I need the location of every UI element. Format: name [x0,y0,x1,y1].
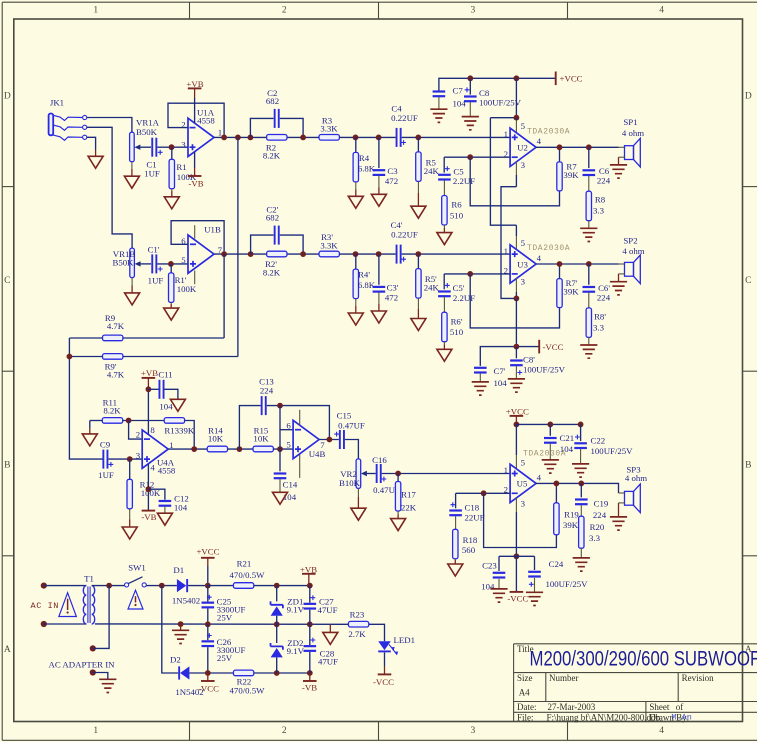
ground under R5p [411,298,426,330]
node C8p rail [514,344,520,350]
svg-text:A4: A4 [519,688,530,698]
node C13/feedback [277,403,283,409]
feedback wire U1A output to pin2 [168,103,224,137]
svg-text:B50K: B50K [136,127,158,137]
node R17 branch [395,471,401,477]
svg-text:4: 4 [150,463,155,473]
capacitor C19 224 [575,483,609,520]
svg-text:24K: 24K [424,166,440,176]
feedback wire R7p to U3 pin2 [470,274,559,328]
wire to C23 C24 [499,555,535,557]
ground under R4 [348,182,363,208]
svg-text:3: 3 [521,160,526,170]
ground under C7p [472,373,489,395]
ground under C23 [490,579,507,602]
node R5 branch [415,135,421,141]
capacitor C27 47UF [304,586,338,616]
svg-text:C: C [745,276,751,286]
svg-text:100UF/25V: 100UF/25V [545,579,588,589]
diode D1 1N5402 [172,565,208,606]
svg-text:4: 4 [537,472,542,482]
svg-text:472: 472 [385,176,398,186]
node U1A out [221,135,227,141]
svg-text:AC IN: AC IN [31,601,60,611]
switch SW1 [125,562,147,587]
wire +VCC rail to C21 C22 [516,423,580,425]
resistor R2 8.2K [263,135,287,161]
svg-text:R18: R18 [463,535,478,545]
svg-text:22K: 22K [401,503,417,513]
svg-text:-VB: -VB [302,683,317,693]
node R2p/R3p [300,251,306,257]
resistor R23 2.7K [348,609,368,639]
warning mark in T1 [59,593,77,617]
svg-text:C: C [4,276,10,286]
svg-text:C3': C3' [387,283,399,293]
svg-text:39K: 39K [563,170,579,180]
svg-text:510: 510 [450,327,464,337]
svg-text:C16: C16 [372,455,387,465]
potentiometer VR1B B50K [112,248,151,278]
wire U1B output [214,253,319,255]
svg-text:D: D [745,92,752,102]
wire jack contact2 down to channel 2 [87,127,132,248]
svg-text:TDA2030A: TDA2030A [523,450,566,459]
node D1/D2 feed [159,583,165,589]
resistor R4 6.8K [353,137,376,182]
node C2p branch [248,251,254,257]
LED1 [378,635,415,655]
svg-text:104: 104 [159,401,173,411]
resistor R21 470/0.5W [230,559,266,589]
node U4B out [327,437,333,443]
capacitor C13 224 with loop [239,377,329,450]
svg-text:B10K: B10K [339,478,361,488]
svg-text:-VB: -VB [141,512,156,522]
svg-text:4558: 4558 [197,116,215,126]
diode D2 1N5402 [162,586,208,698]
svg-text:2.2UF: 2.2UF [453,176,475,186]
svg-text:1: 1 [504,246,508,256]
svg-text:R1339K: R1339K [164,426,194,436]
svg-text:3: 3 [471,6,476,16]
svg-text:R1: R1 [176,162,186,172]
svg-text:3.3: 3.3 [593,206,605,216]
svg-text:C5': C5' [453,283,465,293]
svg-text:104: 104 [494,378,508,388]
capacitor C9 1UF [98,439,142,480]
wire R14 to R15 [228,448,253,450]
node C6p [586,261,592,267]
svg-text:C3: C3 [387,166,398,176]
capacitor C4 0.22UF [391,103,418,146]
svg-text:R8': R8' [594,311,606,321]
svg-text:VR1A: VR1A [136,117,160,127]
resistor R9p 4.7K [69,354,238,380]
svg-text:Size: Size [517,673,533,683]
svg-text:+VB: +VB [141,368,158,378]
svg-text:B: B [4,461,10,471]
node C25 top [205,583,211,589]
ground under JK1 [88,150,103,168]
ground under R4p [348,299,363,325]
svg-text:470/0.5W: 470/0.5W [230,570,266,580]
svg-text:560: 560 [462,545,476,555]
resistor R5p 24K [416,254,440,298]
svg-text:+VB: +VB [300,564,317,574]
amplifier U3 TDA2030A [504,238,571,287]
svg-text:Date:: Date: [517,702,537,712]
svg-text:3: 3 [471,726,476,736]
wire R3 to C4 [339,136,395,138]
node C2 branch [248,135,254,141]
capacitor C3p 472 [373,254,399,303]
node C12 branch [146,486,152,492]
wire C1 to U1A pin3 [172,146,189,148]
svg-text:C8': C8' [523,354,535,364]
svg-text:24K: 24K [424,283,440,293]
svg-text:+VCC: +VCC [560,74,583,84]
resistor R19 39K [554,483,580,534]
svg-text:8.2K: 8.2K [263,267,281,277]
bottom rail wire [208,672,310,674]
svg-text:8.2K: 8.2K [103,406,121,416]
svg-text:4 ohm: 4 ohm [622,128,644,138]
node mix [67,354,73,360]
node C22 [578,422,584,428]
capacitor C2 682 with loop wire [250,88,303,138]
node U1B out [221,251,227,257]
ground under R6p [437,342,452,362]
node C28 bottom [307,670,313,676]
svg-text:Revision: Revision [682,673,715,683]
wire C15 to VR2 [345,440,359,459]
svg-text:C1': C1' [148,245,160,255]
+VCC power above U5 [506,406,529,424]
svg-text:100UF/25V: 100UF/25V [591,446,634,456]
svg-text:27-Mar-2003: 27-Mar-2003 [548,702,596,712]
ground under VR1B [125,278,140,305]
speaker SP2 4 ohm [610,235,645,295]
wire SW1 to D1 [146,585,177,587]
wire U2 pin2 [444,156,510,158]
svg-text:+VCC: +VCC [506,406,529,416]
svg-text:R4': R4' [358,270,370,280]
zener ZD2 9.1V [271,624,305,673]
node C9/R12 [127,456,133,462]
resistor R6p 510 [442,297,464,342]
node pin2/C5p [467,271,473,277]
svg-text:C19: C19 [594,499,609,509]
svg-text:C24: C24 [549,559,564,569]
svg-text:6.8K: 6.8K [358,163,376,173]
zener ZD1 9.1V [271,586,305,625]
speaker SP3 4 ohm [610,464,647,530]
svg-text:+VCC: +VCC [196,546,219,556]
svg-text:C4': C4' [391,220,403,230]
power -VCC under C26 [198,673,219,693]
node C19 [578,481,584,487]
capacitor C12 104 [148,489,188,512]
svg-text:C9: C9 [100,439,111,449]
svg-text:3.3K: 3.3K [320,124,338,134]
wire pin6 link [279,406,281,450]
node C8 on rail [467,75,473,81]
wire C26 to bottom rail [207,647,209,673]
wire C25 to mid rail [207,609,209,625]
-VCC power under U5 [507,556,528,603]
power -VB under C28 [302,673,317,693]
capacitor C2p 682 with loop wire [251,205,304,255]
potentiometer VR2 B10K [339,459,376,489]
svg-text:47UF: 47UF [318,657,338,667]
U4B power stubs [299,410,301,478]
svg-text:A: A [4,645,11,655]
svg-text:D1: D1 [173,565,184,575]
svg-text:1UF: 1UF [144,168,160,178]
resistor R2p 8.2K [263,251,287,277]
ground at R11 left [82,421,97,446]
capacitor C8p 100UF/25V [510,347,566,375]
mid rail wire [95,623,348,625]
capacitor C7p 104 [474,366,507,388]
capacitor C5p 2.2UF [438,274,475,303]
-VCC power rail [480,340,563,366]
svg-text:R6: R6 [451,200,462,210]
op-amp U1A 4558 [181,108,222,157]
node R4 branch [353,135,359,141]
wire U5 pin3 down [515,498,517,512]
svg-text:1: 1 [93,726,98,736]
ground under R1p [164,302,179,320]
wire C4p to U3 pin1 [402,253,510,255]
node pin2/C5 [467,154,473,160]
capacitor C7 104 [433,85,467,108]
svg-text:U4B: U4B [309,449,326,459]
svg-text:47UF: 47UF [317,605,337,615]
svg-text:100K: 100K [177,284,197,294]
capacitor C21 104 [544,424,574,454]
svg-text:1: 1 [218,127,222,137]
title block [514,644,757,723]
wire U4B output to C15 [319,439,339,441]
svg-text:4.7K: 4.7K [107,370,125,380]
resistor R8 3.3 [586,176,606,221]
svg-text:-VCC: -VCC [373,677,394,687]
svg-text:3: 3 [521,498,526,508]
capacitor C28 47UF [304,624,339,666]
ground under VR2 [351,488,366,520]
svg-text:0.47UF: 0.47UF [338,420,365,430]
svg-text:5: 5 [286,440,291,450]
wire rail to U2 pin5 [490,78,516,117]
transformer T1 [83,573,94,624]
node pin3 split [514,553,520,559]
svg-text:C14: C14 [283,479,298,489]
svg-text:2: 2 [282,6,287,16]
svg-text:U1B: U1B [204,225,221,235]
capacitor C1 1UF [144,138,171,179]
node C3p branch [376,251,382,257]
svg-text:104: 104 [174,502,188,512]
svg-text:3: 3 [181,139,186,149]
wire C16 to U5 pin1 [382,473,510,475]
svg-text:4 ohm: 4 ohm [625,473,647,483]
node R4p branch [353,251,359,257]
svg-text:F:\huang bf\AN\M200-800.ddb: F:\huang bf\AN\M200-800.ddb [547,713,661,723]
op-amp U1B [181,225,222,274]
svg-text:4 ohm: 4 ohm [622,246,644,256]
svg-text:104: 104 [453,98,467,108]
svg-text:472: 472 [385,293,398,303]
wire U2 output to SP1 [536,146,619,148]
svg-text:3.3: 3.3 [593,322,605,332]
svg-text:10K: 10K [253,434,269,444]
capacitor C25 3300UF 25V [202,586,246,623]
svg-text:-VCC: -VCC [543,342,564,352]
capacitor C22 100UF/25V [574,424,633,456]
power +VB above U4A [141,368,158,434]
capacitor C8 100UF/25V [464,78,522,107]
svg-text:2.7K: 2.7K [348,629,366,639]
svg-text:682: 682 [266,213,279,223]
wire adapter to switch node [93,586,109,649]
resistor R17 22K [395,474,416,513]
svg-text:4: 4 [659,6,664,16]
node C1p/R1p [168,261,174,267]
node R2/R3 [300,135,306,141]
wire U2 pin3 to -VCC rail [515,162,517,176]
ground under R18 [448,559,463,576]
svg-text:C15: C15 [337,410,352,420]
svg-text:4.7K: 4.7K [107,321,125,331]
node T1 ground [178,621,184,627]
ground under R17 [391,511,406,531]
node U4A out [191,446,197,452]
svg-text:R23: R23 [350,609,365,619]
svg-text:4: 4 [659,726,664,736]
svg-text:1: 1 [504,465,508,475]
node SW1/adapter [106,583,112,589]
svg-text:104: 104 [481,581,495,591]
ground after C11 [170,399,185,411]
svg-text:C11: C11 [158,369,172,379]
ground under C8 [462,102,479,130]
svg-text:3: 3 [136,451,141,461]
svg-text:D2: D2 [170,655,181,665]
ground under C24 [526,578,543,606]
U1B power stubs [194,225,196,284]
capacitor C6p 224 [583,264,611,302]
capacitor C14 104 [274,449,298,502]
svg-text:JK1: JK1 [50,97,64,107]
ground under C7 [430,97,447,122]
node +VCC [514,422,520,428]
svg-text:3: 3 [521,277,526,287]
capacitor C26 3300UF 25V [202,624,246,663]
ground under R8p [580,337,597,358]
resistor R5 24K [416,137,440,181]
svg-text:0.22UF: 0.22UF [391,113,418,123]
ground under C21 [542,444,559,474]
wire U3 output to SP2 [536,263,619,265]
port AC IN [31,583,60,628]
svg-text:Number: Number [549,673,579,683]
ground under C12 [157,507,172,526]
wire AC to T1 [44,585,87,587]
potentiometer VR1A B50K [130,117,160,161]
svg-text:C6': C6' [598,283,610,293]
wire U5 pin2 [456,492,511,494]
svg-text:TDA2030A: TDA2030A [527,244,570,253]
resistor R20 3.3 [579,505,605,548]
svg-text:5: 5 [521,121,526,131]
node C13 branch [237,446,243,452]
svg-text:2.2UF: 2.2UF [453,293,475,303]
resistor R9 4.7K [69,313,224,341]
node R19 [554,481,560,487]
resistor R3p 3.3K [319,232,339,257]
node R11/pin2 [126,418,132,424]
svg-text:8: 8 [150,425,155,435]
svg-text:6: 6 [286,421,291,431]
port AC ADAPTER IN [49,645,116,675]
ground under R12 [122,509,137,539]
resistor R14 10K [207,425,227,451]
capacitor C3 472 [373,137,399,186]
resistor R22 470/0.5W [230,670,266,695]
svg-text:1UF: 1UF [98,470,114,480]
svg-text:510: 510 [450,210,464,220]
svg-text:C7': C7' [494,366,506,376]
svg-text:39K: 39K [563,287,579,297]
wire jack contact3 to ground [87,137,96,150]
svg-text:25V: 25V [217,653,233,663]
node C6 [586,144,592,150]
feedback wire R19 to U5 pin2 [484,493,557,547]
power -VB under U4A [141,464,156,522]
svg-text:B: B [745,461,751,471]
svg-text:C8: C8 [479,88,490,98]
node pin3 join [514,296,520,302]
svg-text:SP2: SP2 [623,235,637,245]
warning mark at SW1 [128,590,143,609]
resistor R6 510 [442,180,464,225]
wire left mix bus [69,338,102,459]
svg-text:7: 7 [320,440,325,450]
amplifier U2 TDA2030A [504,121,571,170]
feedback wire R7 to U2 pin2 [470,157,559,206]
svg-text:C18: C18 [465,503,480,513]
svg-text:C23: C23 [482,561,497,571]
svg-text:5: 5 [181,255,186,265]
node C21 [547,422,553,428]
svg-text:R21: R21 [237,559,252,569]
node C1/R1 [169,144,175,150]
node R7 [557,144,563,150]
resistor R15 10K [253,425,273,451]
svg-text:Sheet: Sheet [649,702,669,712]
svg-text:8.2K: 8.2K [263,151,281,161]
wire U3 pin3 to -VCC rail [515,278,517,292]
amplifier U5 TDA2030A [504,450,567,509]
resistor R8p 3.3 [586,293,606,338]
svg-text:R19: R19 [564,509,579,519]
ground at adapter [99,679,116,692]
node pin5 [277,446,283,452]
svg-text:5: 5 [521,458,526,468]
svg-text:-VCC: -VCC [198,683,219,693]
